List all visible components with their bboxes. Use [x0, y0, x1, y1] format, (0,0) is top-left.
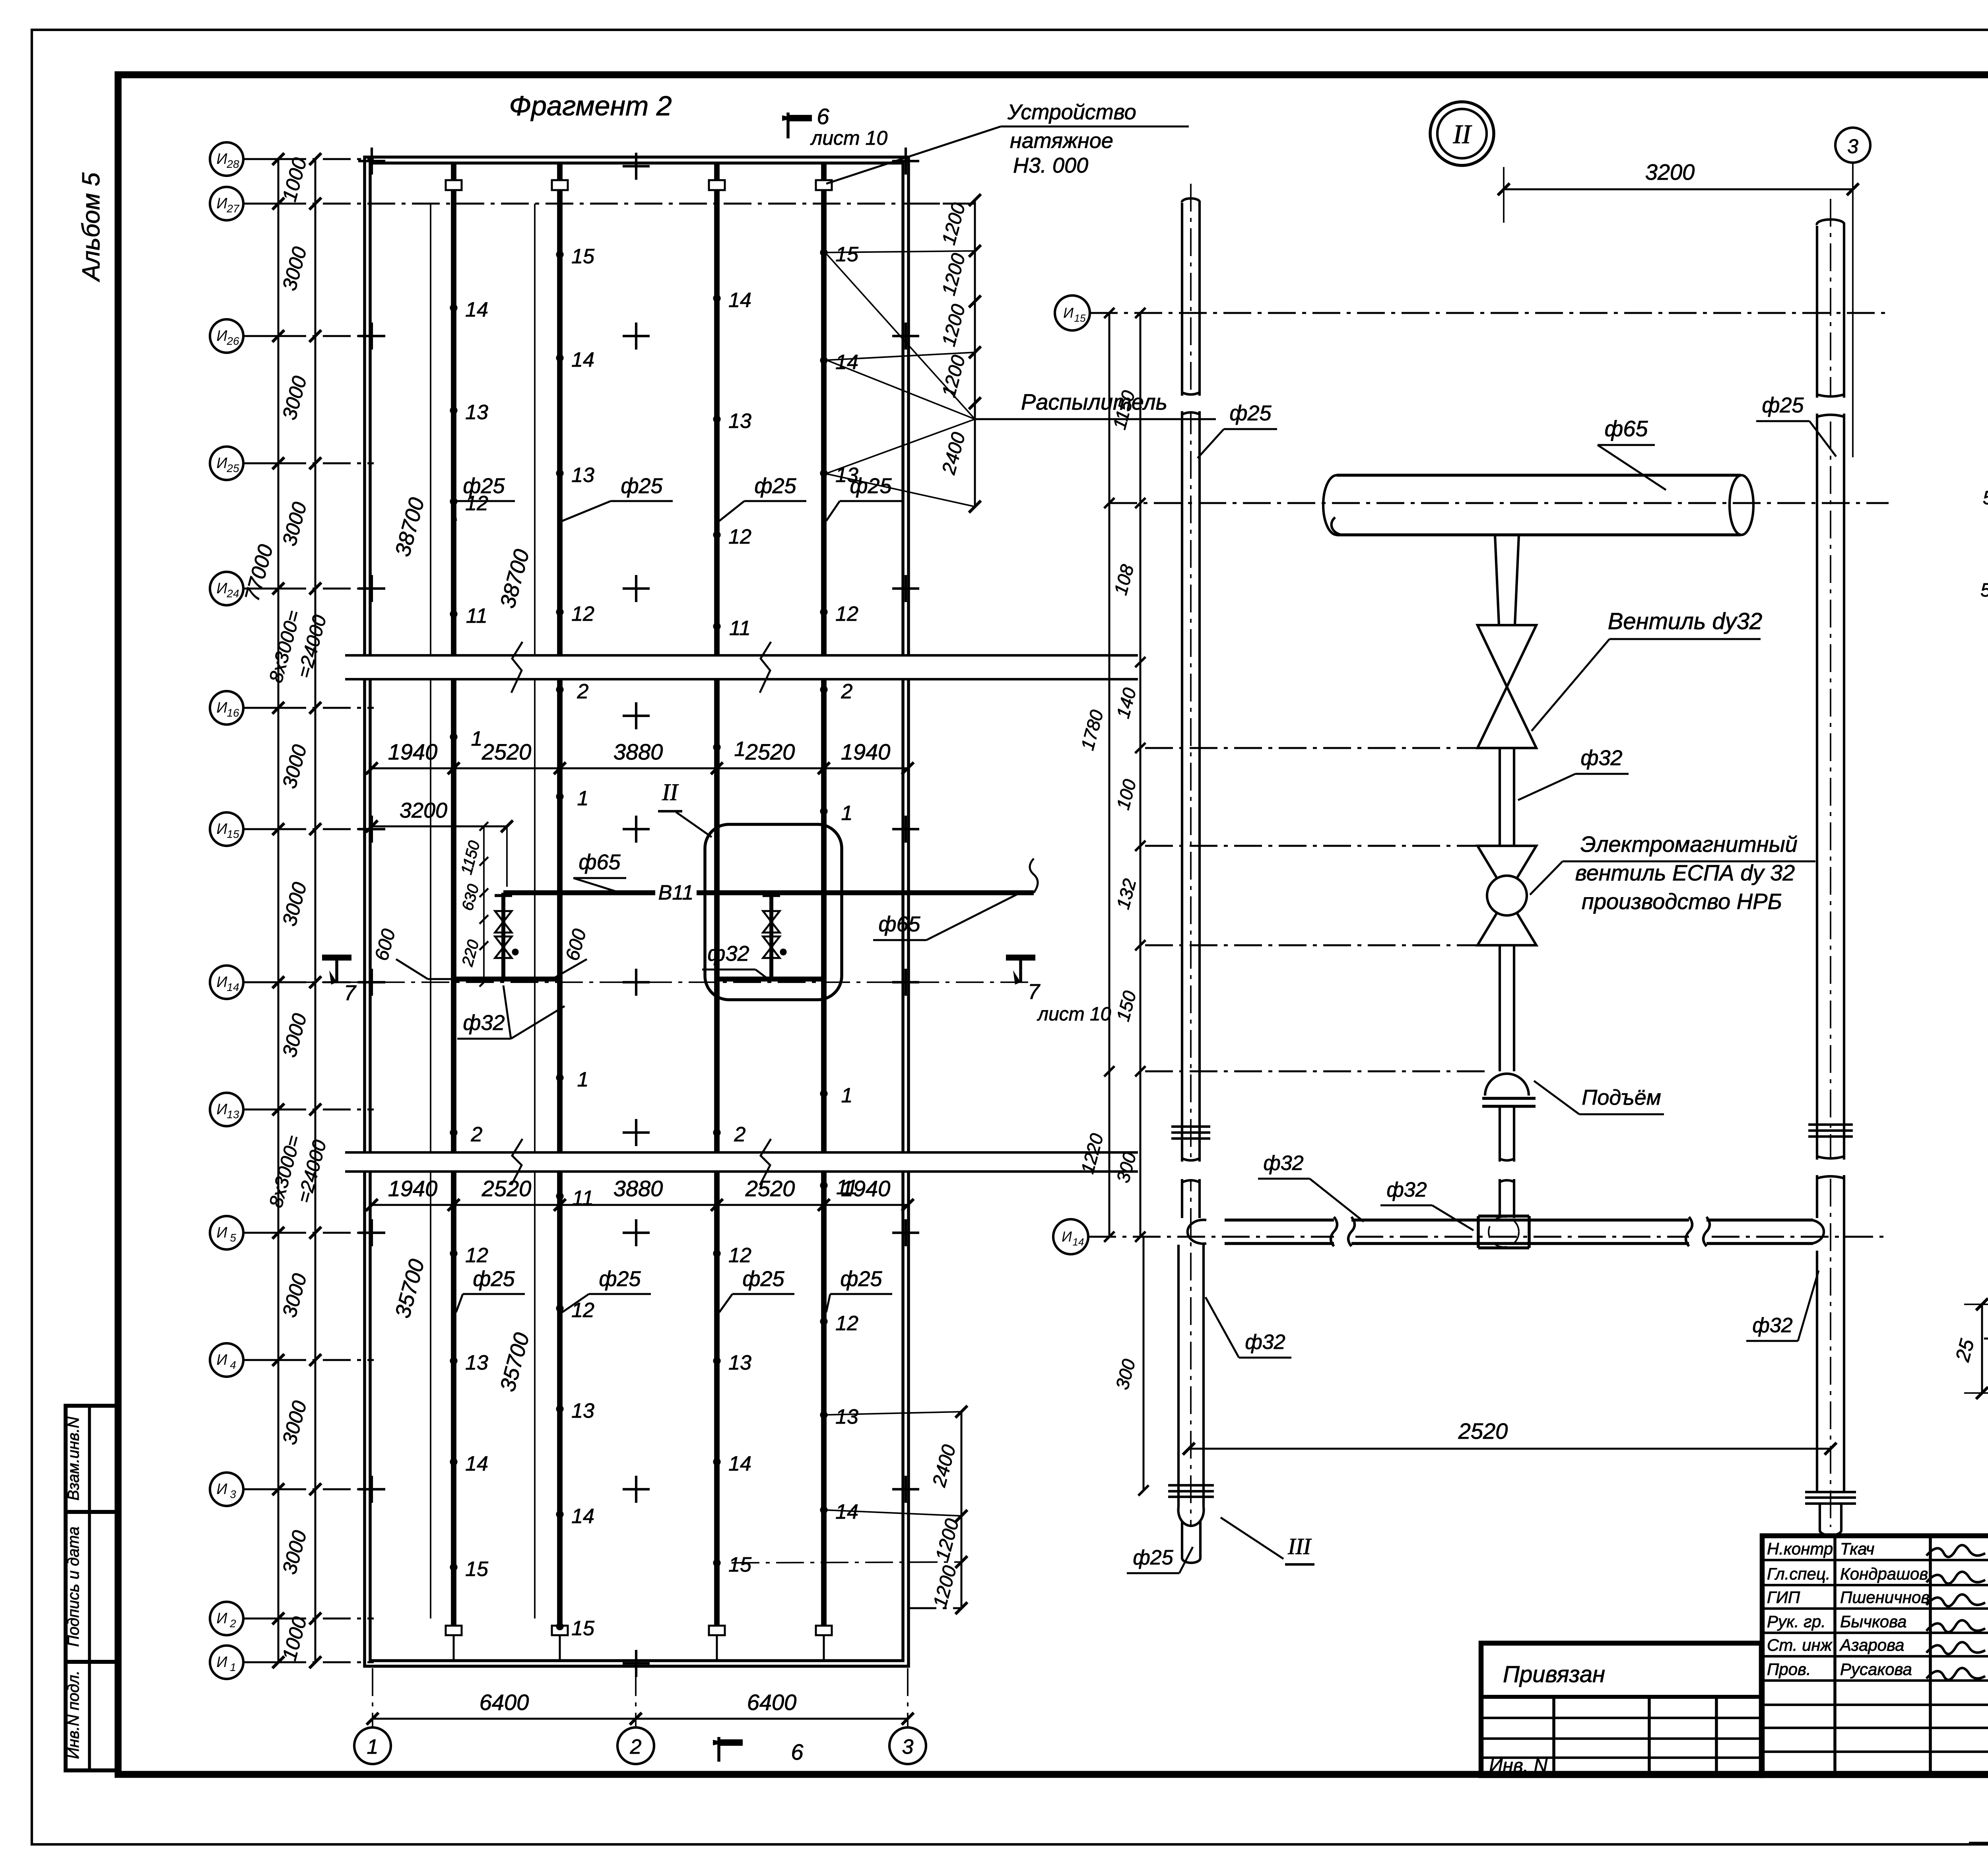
- svg-text:3: 3: [902, 1735, 914, 1758]
- svg-text:35700: 35700: [390, 1257, 429, 1321]
- svg-text:И: И: [216, 1481, 227, 1498]
- svg-text:3880: 3880: [613, 1176, 663, 1201]
- svg-text:1: 1: [577, 1068, 589, 1091]
- svg-text:Электромагнитный: Электромагнитный: [1580, 832, 1798, 857]
- svg-text:4: 4: [230, 1359, 236, 1371]
- svg-text:630: 630: [459, 882, 483, 913]
- svg-text:1: 1: [577, 787, 589, 810]
- svg-text:Привязан: Привязан: [1503, 1661, 1605, 1687]
- svg-text:Взам.инв.N: Взам.инв.N: [65, 1417, 82, 1501]
- svg-text:2520: 2520: [1458, 1418, 1508, 1444]
- svg-text:И: И: [216, 1101, 227, 1118]
- svg-text:2: 2: [577, 680, 589, 703]
- svg-text:1150: 1150: [458, 839, 483, 876]
- svg-text:14: 14: [571, 1505, 594, 1528]
- svg-text:3000: 3000: [278, 244, 311, 293]
- svg-text:1940: 1940: [841, 1176, 891, 1201]
- svg-text:12: 12: [571, 602, 594, 626]
- svg-text:ф25: ф25: [840, 1267, 882, 1291]
- svg-text:Н.контр.: Н.контр.: [1767, 1539, 1838, 1558]
- svg-text:16: 16: [227, 707, 239, 719]
- svg-text:35700: 35700: [495, 1330, 534, 1394]
- svg-text:2520: 2520: [745, 1176, 795, 1201]
- svg-text:ф25: ф25: [463, 474, 505, 498]
- svg-text:3000: 3000: [278, 1011, 311, 1059]
- svg-text:13: 13: [728, 410, 751, 433]
- svg-text:И: И: [216, 455, 227, 472]
- svg-text:1: 1: [367, 1735, 379, 1758]
- svg-text:ф25: ф25: [850, 474, 892, 498]
- svg-text:Подъём: Подъём: [1582, 1086, 1661, 1109]
- svg-text:2520: 2520: [745, 739, 795, 764]
- svg-text:108: 108: [1110, 562, 1138, 597]
- svg-text:Ст. инж: Ст. инж: [1767, 1636, 1833, 1654]
- svg-text:1: 1: [841, 1084, 853, 1107]
- svg-text:Н3. 000: Н3. 000: [1013, 153, 1088, 177]
- svg-text:И: И: [216, 580, 227, 597]
- svg-text:5: 5: [230, 1232, 236, 1244]
- svg-text:5852-025.02.00.011: 5852-025.02.00.011: [1983, 488, 1988, 509]
- svg-text:натяжное: натяжное: [1010, 129, 1113, 153]
- svg-text:2520: 2520: [481, 739, 532, 764]
- svg-text:И: И: [1062, 1228, 1072, 1245]
- svg-text:И: И: [216, 1224, 227, 1241]
- svg-text:28: 28: [226, 158, 239, 170]
- svg-text:1000: 1000: [278, 1614, 311, 1663]
- svg-text:14: 14: [728, 289, 751, 312]
- svg-text:2400: 2400: [928, 1442, 960, 1489]
- svg-text:12: 12: [835, 602, 858, 626]
- svg-text:300: 300: [1111, 1357, 1139, 1392]
- svg-text:11: 11: [572, 1187, 594, 1210]
- svg-text:3880: 3880: [613, 739, 663, 764]
- svg-text:12: 12: [835, 1312, 858, 1335]
- svg-text:13: 13: [465, 1351, 488, 1374]
- svg-text:13: 13: [571, 464, 594, 487]
- svg-text:ф25: ф25: [1229, 401, 1272, 425]
- svg-text:14: 14: [465, 1452, 488, 1475]
- svg-text:15: 15: [571, 1617, 595, 1640]
- svg-text:14: 14: [465, 298, 488, 321]
- svg-text:1: 1: [230, 1661, 236, 1673]
- svg-text:ГИП: ГИП: [1767, 1588, 1800, 1607]
- svg-text:14: 14: [728, 1452, 751, 1475]
- svg-text:ф65: ф65: [878, 912, 920, 936]
- svg-text:12: 12: [571, 1299, 594, 1322]
- svg-text:3000: 3000: [278, 880, 311, 928]
- svg-text:И: И: [1063, 305, 1074, 321]
- svg-text:3000: 3000: [278, 1528, 311, 1576]
- svg-text:И: И: [216, 328, 227, 344]
- svg-text:Устройство: Устройство: [1007, 100, 1136, 124]
- svg-text:1940: 1940: [841, 739, 891, 764]
- svg-text:ф32: ф32: [1263, 1152, 1303, 1175]
- svg-text:12: 12: [465, 1244, 488, 1267]
- svg-text:1: 1: [471, 727, 483, 750]
- svg-text:15: 15: [728, 1553, 752, 1576]
- svg-text:1200: 1200: [930, 1563, 961, 1610]
- svg-text:II: II: [662, 779, 679, 805]
- svg-text:5852-025.02.01.001: 5852-025.02.01.001: [1980, 580, 1988, 601]
- svg-text:И: И: [216, 1352, 227, 1368]
- svg-text:1780: 1780: [1077, 707, 1107, 752]
- svg-text:14: 14: [835, 351, 858, 374]
- svg-text:132: 132: [1112, 876, 1140, 911]
- svg-text:3200: 3200: [400, 799, 447, 822]
- svg-text:1200: 1200: [938, 251, 970, 297]
- svg-text:2: 2: [229, 1617, 236, 1630]
- svg-text:6: 6: [791, 1739, 804, 1764]
- svg-text:ф25: ф25: [1133, 1546, 1173, 1569]
- svg-text:3000: 3000: [278, 499, 311, 548]
- svg-text:38700: 38700: [390, 495, 429, 559]
- svg-text:7: 7: [1028, 980, 1041, 1004]
- svg-text:II: II: [1452, 119, 1472, 149]
- svg-text:ф32: ф32: [1386, 1178, 1427, 1201]
- svg-text:И: И: [216, 1610, 227, 1627]
- svg-text:И: И: [216, 195, 227, 212]
- svg-text:220: 220: [458, 938, 482, 969]
- svg-text:3: 3: [1847, 135, 1858, 157]
- svg-text:14: 14: [571, 348, 594, 371]
- svg-text:ф65: ф65: [579, 850, 621, 874]
- svg-text:24: 24: [226, 587, 239, 600]
- svg-text:Азарова: Азарова: [1839, 1636, 1905, 1654]
- svg-text:3000: 3000: [278, 742, 311, 791]
- svg-text:3000: 3000: [278, 373, 311, 422]
- svg-text:12: 12: [728, 1244, 751, 1267]
- svg-text:III: III: [1287, 1533, 1312, 1559]
- svg-text:ф25: ф25: [742, 1267, 784, 1291]
- svg-text:ф25: ф25: [754, 474, 796, 498]
- svg-text:Фрагмент 2: Фрагмент 2: [509, 90, 672, 121]
- svg-text:И: И: [216, 699, 227, 716]
- svg-text:13: 13: [465, 401, 488, 424]
- svg-text:ф32: ф32: [1752, 1314, 1792, 1337]
- svg-text:14: 14: [227, 981, 239, 993]
- svg-text:ф25: ф25: [473, 1267, 515, 1291]
- svg-text:Инв. N: Инв. N: [1489, 1755, 1547, 1776]
- svg-text:3200: 3200: [1645, 159, 1695, 185]
- svg-text:26: 26: [226, 335, 239, 347]
- svg-text:140: 140: [1112, 686, 1140, 721]
- svg-text:2: 2: [630, 1735, 642, 1758]
- svg-text:И: И: [216, 151, 227, 167]
- svg-text:15: 15: [835, 243, 859, 266]
- svg-text:В11: В11: [658, 881, 694, 904]
- svg-text:1: 1: [734, 738, 746, 761]
- svg-text:1200: 1200: [938, 302, 970, 348]
- svg-text:150: 150: [1112, 989, 1140, 1024]
- svg-text:ф32: ф32: [1580, 746, 1622, 770]
- svg-text:600: 600: [371, 927, 400, 963]
- svg-text:2400: 2400: [938, 430, 969, 477]
- svg-text:1940: 1940: [388, 1176, 438, 1201]
- svg-text:2: 2: [734, 1123, 746, 1146]
- svg-text:15: 15: [227, 828, 239, 840]
- svg-text:25: 25: [1951, 1337, 1978, 1364]
- svg-text:6400: 6400: [480, 1690, 529, 1715]
- svg-text:1200: 1200: [938, 200, 970, 247]
- svg-text:12: 12: [728, 525, 751, 548]
- svg-text:38700: 38700: [495, 547, 534, 611]
- svg-text:2520: 2520: [481, 1176, 532, 1201]
- svg-text:Гл.спец.: Гл.спец.: [1767, 1564, 1831, 1583]
- svg-text:Рук. гр.: Рук. гр.: [1767, 1612, 1826, 1631]
- svg-text:ф25: ф25: [1762, 393, 1804, 417]
- svg-text:Пров.: Пров.: [1767, 1660, 1811, 1679]
- svg-text:И: И: [216, 1654, 227, 1671]
- svg-text:15: 15: [1074, 312, 1086, 324]
- svg-text:15: 15: [571, 245, 595, 268]
- svg-text:14: 14: [1073, 1236, 1084, 1248]
- svg-text:И: И: [216, 974, 227, 991]
- svg-text:11: 11: [729, 617, 751, 640]
- svg-text:1000: 1000: [278, 155, 311, 204]
- svg-text:27: 27: [226, 202, 240, 215]
- svg-text:Русакова: Русакова: [1840, 1660, 1912, 1679]
- svg-text:Ткач: Ткач: [1840, 1539, 1874, 1558]
- svg-text:7: 7: [344, 981, 357, 1005]
- svg-text:1200: 1200: [932, 1516, 963, 1563]
- svg-text:6400: 6400: [747, 1690, 797, 1715]
- svg-text:ф32: ф32: [463, 1011, 505, 1035]
- svg-text:13: 13: [571, 1399, 594, 1422]
- svg-text:ф32: ф32: [1245, 1331, 1285, 1354]
- svg-text:13: 13: [835, 1405, 858, 1428]
- svg-text:вентиль ЕСПА dу 32: вентиль ЕСПА dу 32: [1575, 860, 1795, 885]
- svg-text:2: 2: [841, 680, 853, 703]
- svg-text:600: 600: [562, 927, 590, 963]
- svg-text:Бычкова: Бычкова: [1840, 1612, 1907, 1631]
- svg-text:Кондрашов: Кондрашов: [1840, 1564, 1928, 1583]
- svg-text:6: 6: [817, 104, 829, 129]
- svg-text:ф25: ф25: [599, 1267, 641, 1291]
- svg-text:11: 11: [466, 604, 487, 628]
- svg-text:13: 13: [227, 1108, 239, 1121]
- svg-text:ф32: ф32: [707, 942, 749, 966]
- svg-text:1: 1: [841, 802, 853, 825]
- svg-text:И: И: [216, 821, 227, 837]
- svg-text:ф65: ф65: [1604, 416, 1648, 441]
- svg-text:лист 10: лист 10: [1037, 1004, 1111, 1025]
- svg-text:13: 13: [728, 1351, 751, 1374]
- svg-text:2: 2: [471, 1123, 483, 1146]
- svg-text:ф25: ф25: [621, 474, 663, 498]
- svg-text:1940: 1940: [388, 739, 438, 764]
- svg-text:1200: 1200: [938, 353, 970, 399]
- svg-text:25: 25: [226, 462, 239, 474]
- svg-text:производство НРБ: производство НРБ: [1582, 889, 1782, 914]
- svg-text:Альбом 5: Альбом 5: [78, 172, 105, 282]
- svg-text:Вентиль dу32: Вентиль dу32: [1608, 608, 1763, 634]
- svg-text:Подпись и дата: Подпись и дата: [65, 1527, 82, 1647]
- svg-text:лист 10: лист 10: [810, 127, 887, 149]
- svg-text:100: 100: [1112, 777, 1140, 812]
- svg-text:Инв.N подл.: Инв.N подл.: [65, 1671, 82, 1759]
- svg-text:Распылитель: Распылитель: [1021, 389, 1167, 414]
- svg-text:3: 3: [230, 1488, 236, 1500]
- svg-text:3000: 3000: [278, 1398, 311, 1447]
- svg-text:Пшеничнов: Пшеничнов: [1840, 1588, 1930, 1607]
- svg-text:77000: 77000: [241, 542, 278, 604]
- svg-text:15: 15: [465, 1558, 489, 1581]
- svg-text:3000: 3000: [278, 1271, 311, 1319]
